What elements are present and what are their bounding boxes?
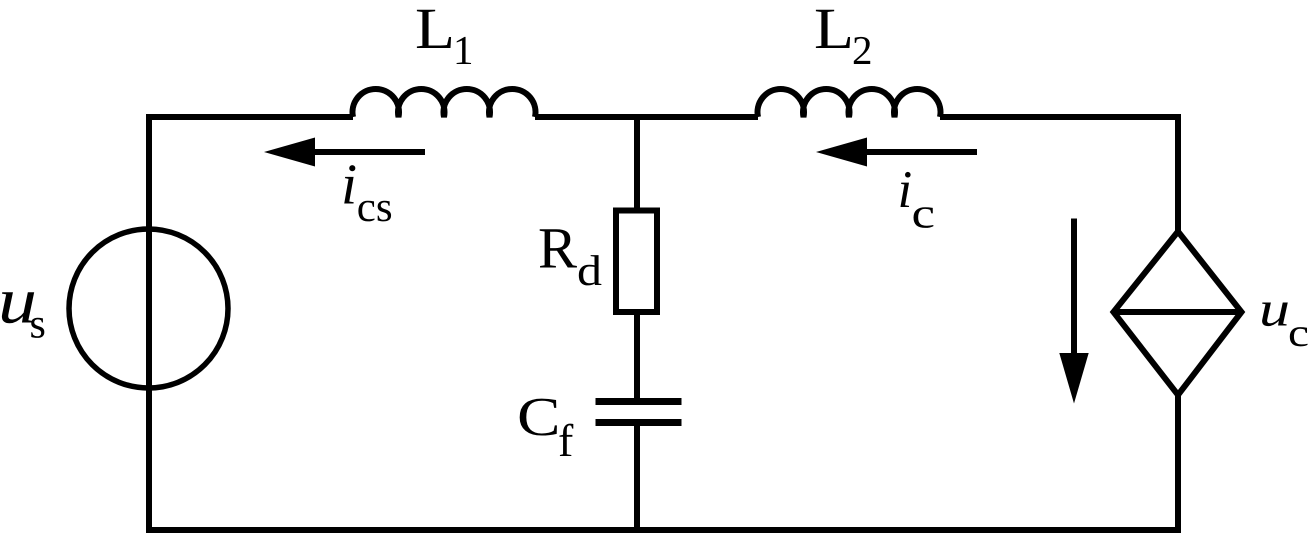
svg-text:i: i (341, 152, 357, 217)
svg-text:cs: cs (357, 184, 393, 231)
svg-text:f: f (558, 415, 574, 466)
svg-text:s: s (30, 302, 46, 348)
svg-text:u: u (1259, 281, 1290, 337)
svg-text:2: 2 (852, 27, 873, 73)
svg-text:c: c (1288, 310, 1309, 355)
svg-text:C: C (517, 386, 561, 447)
svg-text:i: i (898, 161, 913, 219)
svg-text:L: L (415, 0, 455, 61)
svg-text:c: c (912, 191, 936, 238)
svg-text:L: L (814, 0, 854, 61)
svg-text:d: d (577, 248, 602, 295)
svg-text:1: 1 (453, 27, 474, 73)
svg-text:R: R (538, 216, 577, 281)
